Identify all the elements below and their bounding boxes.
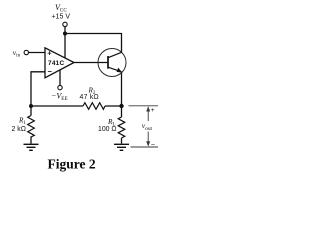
svg-text:+15 V: +15 V	[52, 13, 71, 20]
node: emitter junction	[119, 104, 123, 108]
node: feedback junction	[29, 104, 33, 108]
wire: R2 to emitter node	[105, 105, 122, 107]
wire: feedback node to R2	[31, 105, 83, 107]
terminal: Vcc	[63, 22, 67, 26]
wire: R1 to ground	[30, 137, 32, 144]
svg-text:+: +	[47, 49, 52, 58]
wire: op-amp - input to feedback node	[31, 72, 45, 106]
wire: R1 node to R1	[30, 106, 32, 116]
svg-text:Figure 2: Figure 2	[48, 157, 96, 172]
resistor R1 2k (vertical)	[28, 116, 35, 138]
svg-text:+: +	[151, 107, 155, 114]
svg-text:2 kΩ: 2 kΩ	[12, 126, 26, 133]
terminal: vin	[24, 50, 28, 54]
svg-text:47 kΩ: 47 kΩ	[80, 94, 99, 101]
op-amp U1 741C	[45, 48, 74, 78]
svg-text:−: −	[151, 142, 155, 149]
arrowhead down	[146, 141, 150, 146]
arrowhead up	[146, 106, 150, 111]
ground: R1	[24, 144, 39, 150]
terminal: -Vee	[58, 85, 62, 89]
wire: Vcc terminal to top rail	[64, 27, 66, 58]
transistor Q1	[98, 49, 126, 77]
node: Vcc junction	[63, 32, 67, 36]
resistor R2 47k (horizontal)	[83, 103, 105, 110]
svg-text:−: −	[48, 67, 53, 76]
wire: emitter to emitter node	[121, 72, 123, 106]
wire: emitter node to RL	[121, 106, 123, 117]
vout measurement lines	[129, 106, 159, 147]
wire: RL to ground	[121, 138, 123, 144]
svg-text:100 Ω: 100 Ω	[98, 126, 117, 133]
ground: RL	[114, 144, 129, 150]
wire: top rail Vcc to collector	[65, 34, 122, 53]
resistor RL 100 (vertical)	[118, 117, 125, 138]
svg-text:741C: 741C	[48, 60, 64, 67]
wire: op-amp output to transistor base	[74, 62, 108, 64]
wire: vin terminal to op-amp + input	[29, 52, 45, 54]
wire: op-amp Vee lead	[59, 70, 61, 85]
